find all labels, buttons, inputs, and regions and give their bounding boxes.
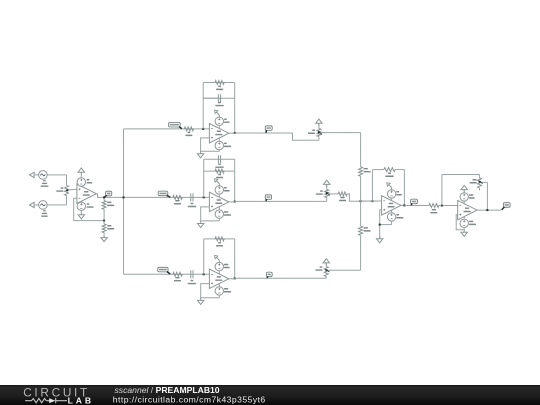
svg-text:sscannel / PREAMPLAB10: sscannel / PREAMPLAB10	[115, 385, 220, 395]
svg-text:LAB: LAB	[68, 395, 94, 405]
svg-text:http://circuitlab.com/cm7k43p3: http://circuitlab.com/cm7k43p355yt6	[113, 394, 266, 404]
